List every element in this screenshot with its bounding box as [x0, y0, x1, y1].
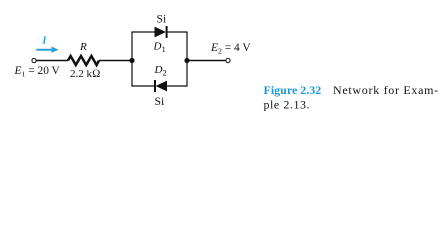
svg-text:Si: Si — [157, 13, 167, 26]
svg-text:E1 = 20 V: E1 = 20 V — [14, 65, 61, 78]
diode D2 — [155, 80, 167, 92]
value label 2.2 kOhm — [70, 68, 100, 80]
svg-text:2.2 kΩ: 2.2 kΩ — [70, 68, 100, 80]
svg-text:Figure 2.32: Figure 2.32 — [264, 83, 322, 97]
diode D1 — [155, 26, 167, 38]
resistor R — [68, 56, 99, 65]
label E2 = 4 V — [210, 42, 251, 55]
node E1 terminal — [32, 58, 36, 62]
svg-text:D1: D1 — [153, 41, 166, 55]
wire bottom rail right — [167, 85, 188, 87]
label R — [79, 41, 87, 53]
wire bottom rail left — [131, 85, 155, 87]
svg-text:ple 2.13.: ple 2.13. — [264, 98, 311, 112]
svg-text:Network for Exam-: Network for Exam- — [333, 83, 439, 97]
node B junction dot — [184, 58, 189, 63]
caption text line 2 — [264, 98, 311, 112]
svg-text:R: R — [79, 41, 87, 53]
svg-text:Si: Si — [155, 95, 165, 108]
wire top rail left — [131, 31, 155, 33]
caption figure number — [264, 83, 322, 97]
label Si (D1) — [157, 13, 167, 26]
label I — [41, 35, 47, 47]
current arrow I — [36, 47, 58, 53]
wire resistor to node A — [99, 60, 132, 62]
node A junction dot — [129, 58, 134, 63]
wire top rail right — [168, 31, 188, 33]
wire left vertical — [131, 32, 133, 86]
svg-text:E2 = 4 V: E2 = 4 V — [210, 42, 251, 55]
wire node B to E2 terminal — [187, 60, 226, 62]
svg-text:I: I — [41, 35, 47, 47]
wire E1 terminal to resistor — [36, 60, 68, 62]
label Si (D2) — [155, 95, 165, 108]
svg-text:D2: D2 — [154, 64, 167, 78]
caption text line 1 — [333, 83, 439, 97]
wire right vertical — [186, 32, 188, 86]
label D1 — [153, 41, 166, 55]
node E2 terminal — [226, 58, 230, 62]
label E1 = 20 V — [14, 65, 61, 78]
label D2 — [154, 64, 167, 78]
